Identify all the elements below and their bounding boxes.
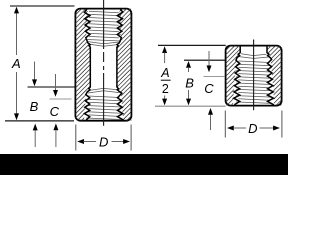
svg-text:A: A (160, 66, 169, 80)
dim A/2 top reference (top edge extended) (158, 44, 226, 46)
dim B arrow up (below bottom line) (33, 124, 38, 131)
hatching right wall (right fig) (207, 46, 320, 106)
svg-text:D: D (248, 121, 257, 136)
section hatching left wall (0, 9, 206, 121)
thread crest lines (right fig) (236, 54, 271, 104)
hatching left wall (right fig) (166, 46, 303, 106)
svg-text:B: B (185, 76, 194, 91)
dim B top reference line (right fig) (184, 59, 226, 61)
dim B arrow up (right fig) (186, 61, 191, 68)
coupling body (left figure, full coupling) (75, 9, 131, 121)
svg-text:2: 2 (162, 82, 169, 96)
centerline (left figure) (103, 0, 105, 49)
internal thread crest lines, bottom (86, 88, 121, 119)
thread flank profile right side (117, 9, 124, 120)
svg-text:D: D (99, 135, 108, 150)
bore walls + thread flanks (right fig) right (267, 46, 274, 105)
dim A/2 arrow up (162, 46, 167, 53)
svg-text:A: A (11, 56, 21, 71)
thread flank profile left side (84, 9, 90, 120)
bottom black bar (0, 154, 288, 175)
bore walls + thread flanks (right fig) left (234, 46, 241, 105)
dim C arrow up (below bottom line) (53, 123, 58, 130)
dim C arrow up below (right fig) (208, 108, 213, 115)
dim B top reference line (28, 86, 76, 88)
dim A bottom reference line (5, 120, 74, 122)
dim C arrow down (outside above) (55, 74, 57, 91)
dim C reference line (gray) (50, 98, 72, 100)
dim D extension lines (right fig) (224, 111, 226, 138)
dim B arrow down (right fig) (188, 90, 190, 100)
svg-text:C: C (204, 81, 214, 96)
dim A arrow up (16, 12, 18, 55)
dim C arrow down (right fig) (208, 51, 210, 67)
coupling body (right figure, half height) (226, 46, 282, 106)
dim C reference line gray (right fig) (204, 76, 225, 78)
internal thread crest lines, top (87, 11, 121, 46)
dim A/2 bottom reference (gray) (155, 105, 226, 107)
dim B arrow down (outside above) (34, 62, 36, 81)
dim A/2 arrow down (164, 96, 166, 101)
svg-text:B: B (30, 99, 39, 114)
dim A top reference line (10, 5, 75, 7)
dim D line + arrows (left fig) (77, 139, 84, 144)
centerline (right figure) (253, 40, 255, 111)
section hatching right wall (2, 9, 247, 121)
dim D extension lines (left fig) (75, 125, 77, 151)
dim A arrow down (16, 72, 18, 114)
svg-text:C: C (50, 104, 60, 119)
dim D line + arrows (right fig) (227, 126, 234, 131)
